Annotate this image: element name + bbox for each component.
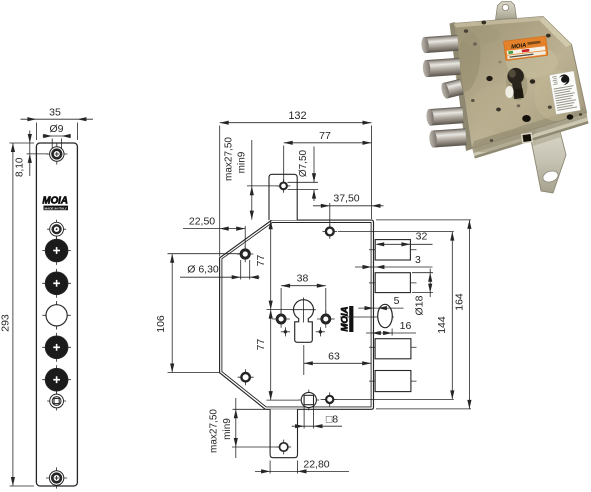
dimension 77 (top edge to cylinder centre, vertical) bbox=[255, 220, 273, 309]
bottom tab hole bbox=[276, 440, 291, 455]
lock body outline (outer) bbox=[220, 220, 374, 409]
dimension 35 (plate width) bbox=[21, 107, 94, 141]
faceplate deadbolt pin 1 (black) bbox=[42, 236, 71, 265]
svg-text:8,10: 8,10 bbox=[15, 157, 26, 177]
photo: lock body side/edge strip bbox=[450, 22, 474, 151]
svg-text:77: 77 bbox=[255, 255, 267, 267]
svg-text:MOIA: MOIA bbox=[340, 306, 351, 331]
dimension 5 (oval offset) bbox=[358, 295, 403, 310]
dimension □8 (follower square) bbox=[292, 406, 342, 429]
svg-text:Ø18: Ø18 bbox=[414, 295, 426, 315]
left cylinder fixing screw hole bbox=[272, 310, 290, 328]
bolt 3 bbox=[369, 339, 417, 359]
dimension 32 (bolt throw) bbox=[338, 231, 454, 247]
svg-text:35: 35 bbox=[49, 107, 61, 119]
dimension Ø18 (bolt diameter) bbox=[412, 269, 433, 316]
dimension 37,50 (upper hole to edge) bbox=[313, 193, 384, 227]
dimension 144 (bolt group height) bbox=[436, 232, 454, 400]
dimension 38 (screw spacing) bbox=[281, 273, 326, 314]
svg-text:min9: min9 bbox=[237, 151, 248, 173]
svg-text:32: 32 bbox=[416, 231, 428, 243]
svg-text:16: 16 bbox=[400, 320, 412, 332]
top tab hole Ø7.50 bbox=[277, 179, 291, 193]
photo: top mounting tab bbox=[496, 2, 517, 20]
rotated MOIA logo on body bbox=[340, 306, 354, 332]
faceplate deadbolt pin 4 (black) bbox=[42, 365, 71, 394]
svg-text:293: 293 bbox=[0, 314, 12, 332]
photo: brass face smudges bbox=[452, 31, 484, 94]
dimension Ø6,30 bbox=[180, 260, 260, 280]
hole Ø6,30 (upper left) bbox=[237, 246, 253, 262]
lower-left body hole bbox=[238, 369, 254, 385]
svg-text:22,50: 22,50 bbox=[189, 216, 215, 228]
svg-text:Ø 6,30: Ø 6,30 bbox=[187, 264, 219, 276]
svg-text:77: 77 bbox=[255, 339, 267, 351]
photo: bottom mounting tab bbox=[531, 131, 566, 193]
photo: orange label bbox=[504, 36, 549, 61]
svg-text:Ø9: Ø9 bbox=[49, 123, 63, 135]
dimension 63 (cylinder centre to right edge) bbox=[304, 345, 371, 375]
dimension 16 (oval to edge) bbox=[366, 320, 416, 336]
bottom mounting tab bbox=[270, 409, 297, 457]
photo: square follower opening bbox=[521, 132, 533, 143]
photo: bolt 1 cylinder bbox=[421, 35, 459, 54]
dimension 132 (body width) bbox=[220, 110, 372, 257]
svg-text:MADE IN ITALY: MADE IN ITALY bbox=[45, 206, 68, 210]
svg-text:3: 3 bbox=[415, 254, 421, 266]
dimension 293 (plate height) bbox=[0, 143, 34, 486]
svg-text:□8: □8 bbox=[326, 413, 338, 425]
bolt 1 (top) bbox=[369, 240, 417, 260]
svg-text:106: 106 bbox=[155, 315, 167, 333]
svg-text:37,50: 37,50 bbox=[333, 193, 359, 205]
dimension 8.10 (top hole offset) bbox=[15, 131, 48, 178]
right cylinder fixing screw hole bbox=[317, 310, 335, 328]
svg-text:22,80: 22,80 bbox=[303, 458, 329, 470]
svg-text:144: 144 bbox=[436, 316, 448, 334]
dimension 22,80 (bottom tab width) bbox=[255, 458, 349, 473]
svg-text:132: 132 bbox=[288, 110, 306, 122]
positioning mark left bbox=[281, 327, 290, 336]
faceplate bottom fixing screw bbox=[46, 467, 67, 488]
upper body hole near top edge bbox=[323, 224, 338, 239]
dimension 106 (left) bbox=[155, 254, 241, 373]
svg-text:77: 77 bbox=[319, 130, 331, 142]
faceplate top fixing screw bbox=[46, 143, 67, 164]
photo: auxiliary latch cylinder bbox=[440, 79, 464, 99]
svg-text:max27,50: max27,50 bbox=[209, 409, 220, 453]
svg-text:38: 38 bbox=[297, 273, 309, 285]
svg-text:Ø7,50: Ø7,50 bbox=[298, 149, 309, 177]
dimension Ø9 (top hole diameter) bbox=[43, 123, 72, 149]
oval latch hole Ø18 bbox=[340, 304, 394, 327]
lock body outline (inner sheet line) bbox=[222, 223, 371, 407]
bolt 4 (bottom) bbox=[369, 371, 417, 392]
dimension max27,50 / min9 (top tab) bbox=[224, 137, 280, 220]
faceplate outline (front plate view) bbox=[36, 143, 77, 486]
faceplate lower small pin (square drive) bbox=[47, 392, 66, 411]
MOIA logo on faceplate bbox=[42, 196, 68, 211]
faceplate deadbolt pin 2 (black) bbox=[42, 269, 71, 298]
dimension 22,50 (left edge to hole) bbox=[183, 216, 245, 249]
positioning mark right bbox=[316, 327, 325, 336]
dimension 164 (body height) bbox=[376, 220, 472, 409]
svg-text:63: 63 bbox=[328, 350, 340, 362]
faceplate cylinder hole (open circle) bbox=[42, 301, 70, 329]
square follower hub bbox=[298, 390, 319, 411]
photo: keyhole (euro cylinder opening) bbox=[504, 66, 529, 102]
dimension max27,50 / min9 (bottom tab) bbox=[209, 398, 280, 458]
faceplate deadbolt pin 3 (black) bbox=[42, 333, 71, 362]
svg-text:min9: min9 bbox=[222, 418, 233, 440]
svg-text:164: 164 bbox=[453, 293, 465, 311]
svg-text:MOIA: MOIA bbox=[42, 196, 68, 207]
svg-text:max27,50: max27,50 bbox=[224, 137, 235, 181]
bolt 2 bbox=[369, 273, 417, 293]
photo: lock body face (brass octagon) bbox=[454, 17, 587, 149]
svg-text:5: 5 bbox=[394, 295, 400, 307]
photo: white certification label bbox=[549, 71, 581, 115]
faceplate upper small pin (concentric) bbox=[47, 220, 66, 239]
top mounting tab bbox=[269, 174, 297, 220]
photo: bolt 3 cylinder bbox=[426, 107, 464, 126]
photo: bolt 4 cylinder bbox=[429, 128, 467, 148]
dimension 3 (edge gap) bbox=[355, 254, 433, 269]
dimension 77 (tab hole to right edge) bbox=[284, 130, 372, 182]
dimension Ø7.50 (tab hole) bbox=[288, 147, 319, 202]
euro cylinder keyhole profile bbox=[291, 298, 316, 343]
photo: face screw holes and rivets bbox=[464, 29, 468, 33]
photo: bolt 2 cylinder bbox=[422, 58, 460, 78]
lower body hole bbox=[321, 392, 454, 406]
dimension 77 (cylinder centre to follower, vertical) bbox=[255, 310, 300, 401]
